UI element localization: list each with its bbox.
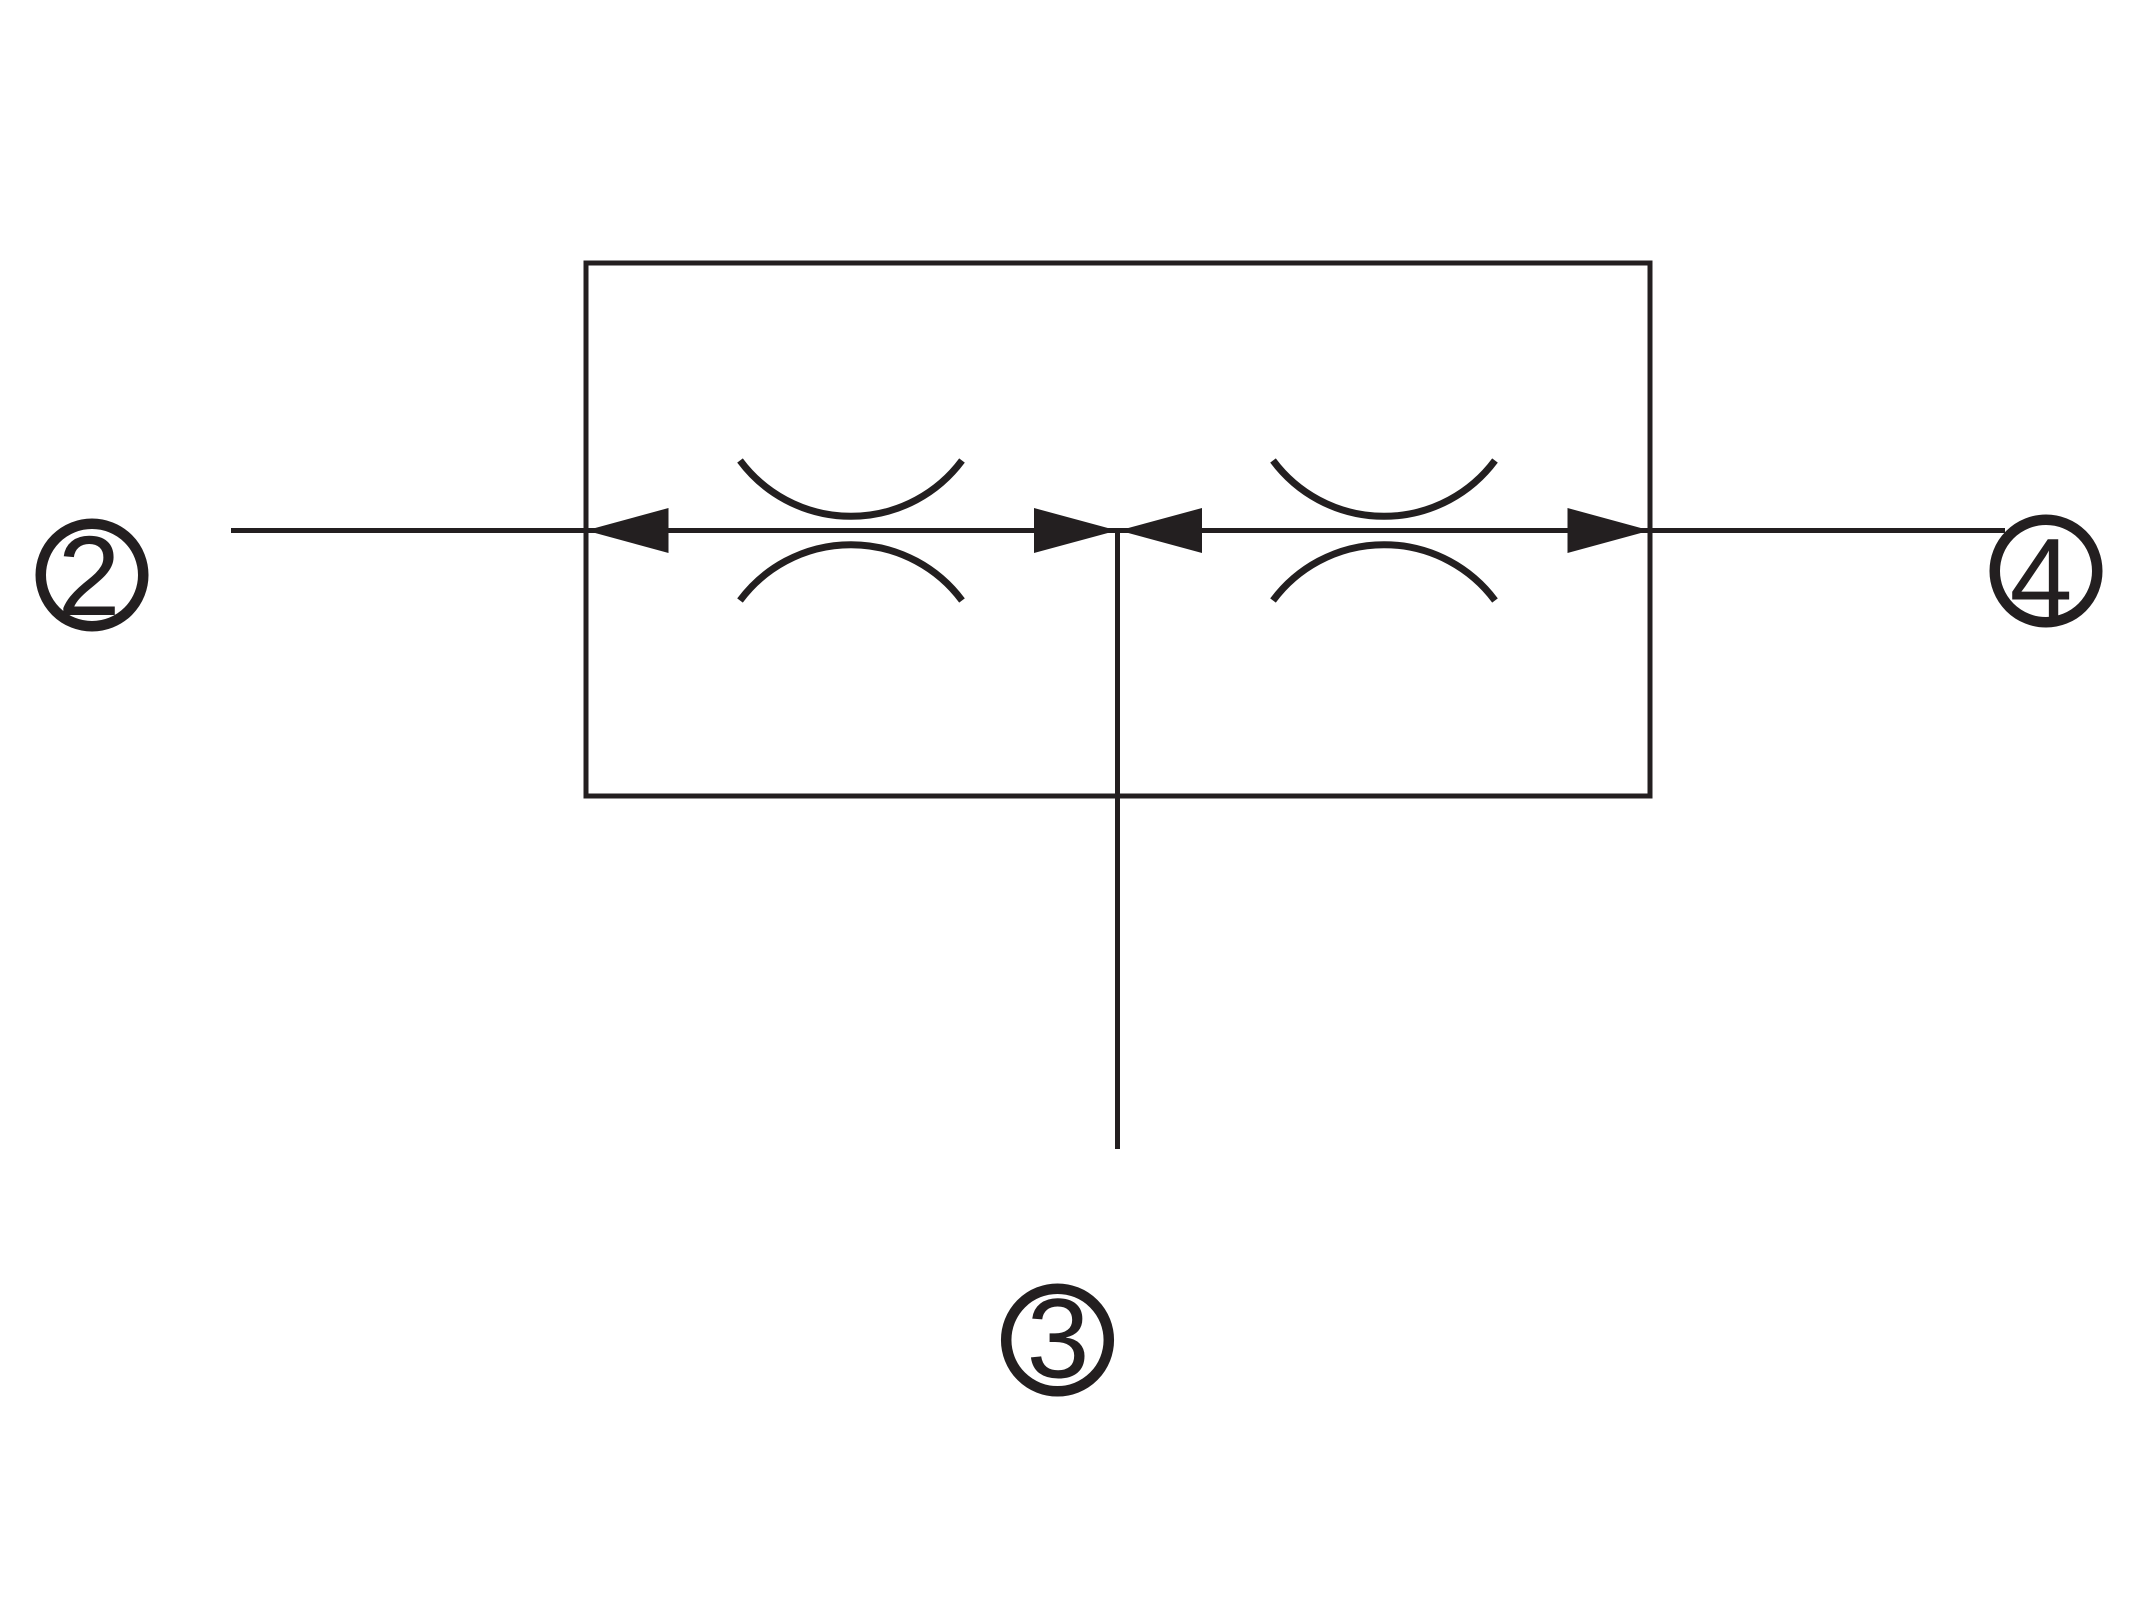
- svg-text:3: 3: [1027, 1276, 1090, 1402]
- svg-text:4: 4: [2010, 515, 2073, 641]
- svg-text:2: 2: [58, 513, 121, 639]
